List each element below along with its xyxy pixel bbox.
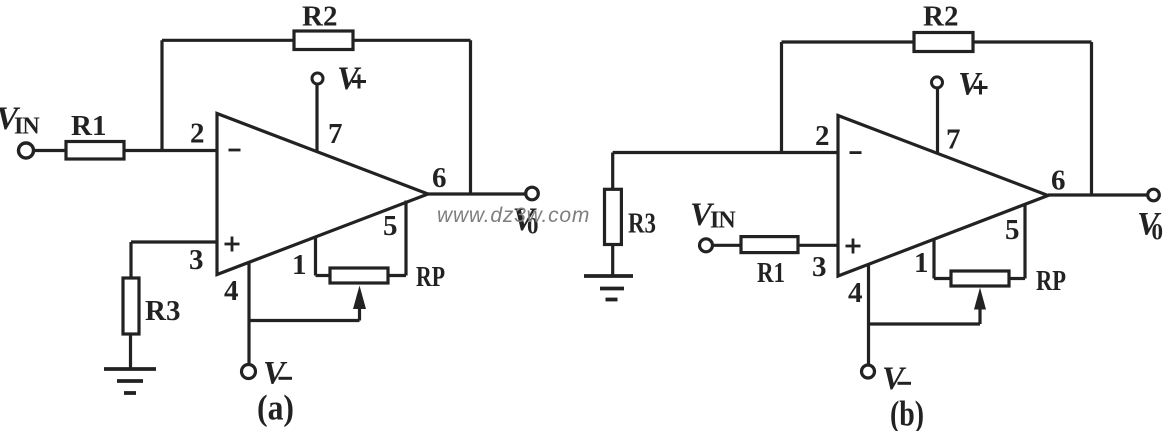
svg-text:5: 5	[1005, 214, 1020, 246]
svg-text:R1: R1	[757, 257, 785, 289]
svg-text:RP: RP	[1036, 265, 1066, 297]
svg-text:(b): (b)	[890, 394, 924, 431]
svg-text:4: 4	[224, 275, 239, 307]
svg-text:4: 4	[848, 277, 863, 309]
svg-text:7: 7	[328, 118, 343, 150]
svg-text:R2: R2	[302, 1, 337, 33]
svg-text:6: 6	[432, 162, 447, 194]
svg-text:V: V	[958, 67, 983, 103]
svg-text:V: V	[337, 61, 362, 97]
svg-text:www.dz3w.com: www.dz3w.com	[437, 204, 590, 227]
svg-text:R1: R1	[71, 110, 106, 142]
svg-text:R3: R3	[145, 295, 180, 327]
svg-text:3: 3	[812, 251, 827, 283]
svg-text:V: V	[882, 361, 907, 397]
svg-text:(a): (a)	[257, 388, 294, 428]
svg-text:7: 7	[946, 124, 961, 156]
svg-text:RP: RP	[416, 261, 445, 293]
svg-text:V: V	[263, 356, 288, 392]
svg-text:R3: R3	[628, 208, 656, 240]
svg-text:5: 5	[383, 210, 398, 242]
svg-text:2: 2	[190, 118, 205, 150]
svg-text:2: 2	[815, 120, 830, 152]
svg-text:IN: IN	[14, 114, 40, 140]
svg-text:6: 6	[1051, 165, 1066, 197]
svg-text:IN: IN	[710, 208, 736, 234]
svg-text:0: 0	[1152, 220, 1164, 245]
svg-text:1: 1	[292, 249, 307, 281]
svg-text:3: 3	[189, 244, 204, 276]
svg-text:R2: R2	[923, 1, 958, 33]
svg-text:1: 1	[914, 247, 929, 279]
